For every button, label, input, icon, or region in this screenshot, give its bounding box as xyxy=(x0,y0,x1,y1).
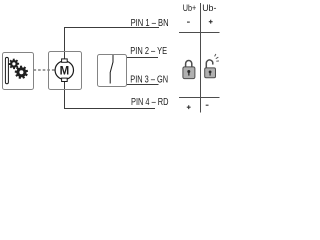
svg-text:PIN 3 – GN: PIN 3 – GN xyxy=(130,75,168,86)
svg-text:PIN 4 – RD: PIN 4 – RD xyxy=(131,97,169,108)
svg-text:Ub+: Ub+ xyxy=(183,3,197,14)
svg-text:M: M xyxy=(60,65,70,77)
svg-text:PIN 1 – BN: PIN 1 – BN xyxy=(131,18,169,29)
svg-text:Ub-: Ub- xyxy=(202,3,216,14)
svg-text:PIN 2 – YE: PIN 2 – YE xyxy=(130,46,167,57)
